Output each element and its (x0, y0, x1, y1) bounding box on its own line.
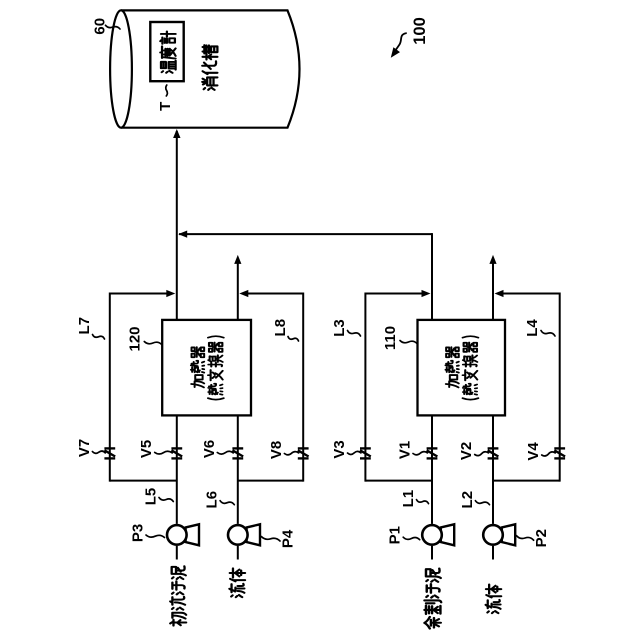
label 流体 (P2 inlet) (486, 585, 502, 614)
svg-text:P3: P3 (130, 524, 147, 542)
valve V6 (232, 448, 243, 458)
wire L6 lower main (237, 415, 239, 524)
pump P2 (483, 524, 515, 545)
svg-text:V6: V6 (201, 440, 218, 458)
svg-text:P2: P2 (533, 529, 550, 547)
digestion tank 60 (110, 10, 299, 127)
label 温度計 (160, 31, 175, 72)
wire bypass L7 (109, 293, 111, 482)
wire L5 lower main (176, 415, 178, 524)
label 流体 (P4 inlet) (229, 568, 245, 597)
valve V1 (427, 448, 438, 458)
label 消化槽 (202, 45, 217, 90)
wire riser from heater 120 to tank (176, 131, 178, 320)
svg-text:V8: V8 (268, 441, 285, 459)
svg-text:L6: L6 (204, 491, 221, 509)
wire bypass L3 (364, 293, 366, 482)
svg-text:V2: V2 (458, 442, 475, 460)
label （熱交換器） of 120 (208, 336, 224, 399)
valve V3 (360, 448, 371, 458)
valve V2 (488, 448, 499, 458)
svg-text:L4: L4 (524, 319, 541, 337)
svg-text:V4: V4 (525, 442, 542, 461)
svg-text:V7: V7 (76, 439, 93, 457)
svg-text:V1: V1 (397, 441, 414, 459)
label 初沈汚泥 (170, 566, 186, 625)
svg-text:110: 110 (382, 326, 399, 350)
svg-text:P1: P1 (387, 526, 404, 544)
svg-text:L7: L7 (76, 317, 93, 335)
wire return line from heater 110 (179, 233, 432, 235)
svg-text:L3: L3 (331, 319, 348, 337)
svg-text:V3: V3 (331, 440, 348, 458)
valve V4 (554, 448, 565, 458)
label （熱交換器） of 110 (463, 336, 479, 399)
pump P4 (228, 524, 260, 545)
heater 110 box (418, 320, 506, 416)
label 加熱器 of 110 (446, 347, 459, 387)
wire bypass L4 (559, 293, 561, 482)
label 加熱器 of 120 (191, 347, 204, 387)
svg-text:V5: V5 (138, 440, 155, 458)
wire heater 110 outlet riser with up arrow (492, 262, 494, 320)
wire L2 lower main (492, 415, 494, 524)
svg-text:P4: P4 (280, 529, 297, 548)
valve V8 (298, 448, 309, 458)
label 余剰汚泥 (424, 569, 441, 629)
svg-text:L2: L2 (459, 491, 476, 509)
pump P1 (422, 524, 454, 545)
wire bypass L8 (302, 293, 304, 482)
thermometer box (150, 22, 183, 81)
pump P3 (167, 524, 199, 545)
svg-text:L5: L5 (143, 488, 160, 506)
valve V7 (104, 448, 115, 458)
wire L1 lower main (431, 415, 433, 524)
wire heater 120 outlet riser with up arrow (237, 262, 239, 320)
svg-text:T: T (157, 102, 174, 111)
svg-text:L8: L8 (272, 319, 289, 337)
heater 120 box (162, 320, 251, 416)
valve V5 (171, 448, 182, 458)
svg-text:L1: L1 (400, 490, 417, 508)
svg-text:120: 120 (126, 326, 143, 351)
svg-text:100: 100 (411, 17, 429, 45)
